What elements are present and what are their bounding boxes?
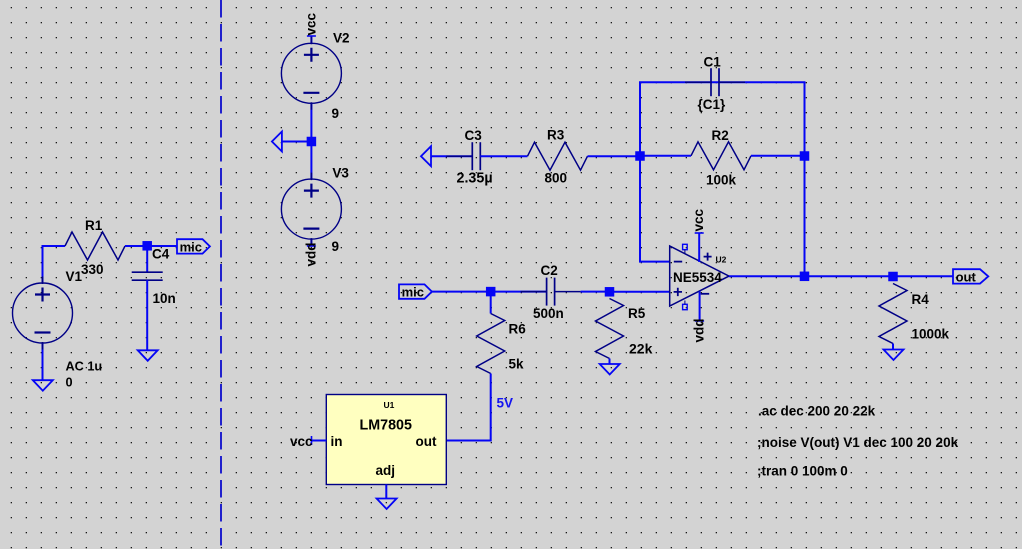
node mic junction <box>142 241 152 251</box>
wire inverting input <box>640 156 670 262</box>
svg-text:330: 330 <box>81 262 104 277</box>
op-amp balance pin top <box>683 244 688 253</box>
svg-text:9: 9 <box>332 239 340 254</box>
flag mic left <box>177 239 210 253</box>
svg-text:R1: R1 <box>85 218 103 233</box>
svg-text:mic: mic <box>180 239 202 254</box>
wire U1 adj to ground <box>385 485 387 499</box>
wire V2 to V3 <box>310 103 312 179</box>
svg-text:0: 0 <box>66 376 73 390</box>
svg-text:R6: R6 <box>509 322 527 337</box>
svg-text:NE5534: NE5534 <box>673 270 722 285</box>
node output feedback <box>800 272 810 282</box>
wire V2 top stub <box>310 36 312 43</box>
svg-text:vcc: vcc <box>290 434 313 449</box>
wire junction to C2 <box>491 291 547 293</box>
svg-text:{C1}: {C1} <box>698 97 727 112</box>
wire vcc stub to U1 in <box>312 440 327 442</box>
svg-text:C4: C4 <box>152 247 170 262</box>
flag out <box>953 269 988 283</box>
svg-text:V2: V2 <box>333 31 350 46</box>
node mic2 <box>486 287 496 297</box>
wire R5 to ground <box>609 359 611 365</box>
wire C2 to R5 node <box>581 291 610 293</box>
wire R6 top lead <box>490 292 492 314</box>
wire R2 right lead <box>751 155 805 157</box>
wire op-amp output <box>729 275 953 277</box>
wire R6 bottom to LM7805 out <box>446 374 490 441</box>
ground arrow left of C3 <box>421 146 431 166</box>
svg-text:;tran 0 100m 0: ;tran 0 100m 0 <box>757 464 848 479</box>
wire V1 bottom to ground <box>42 343 44 380</box>
svg-text:5k: 5k <box>509 357 525 372</box>
capacitor C2 <box>521 278 581 306</box>
svg-text:9: 9 <box>332 106 340 121</box>
svg-text:U1: U1 <box>384 400 395 410</box>
svg-text:800: 800 <box>545 171 568 186</box>
wire feedback loop with C1 <box>640 82 805 156</box>
ground arrow left of V2V3 <box>272 132 282 152</box>
voltage source V1 <box>13 277 73 350</box>
wire R1 to mic flag <box>125 245 177 247</box>
tick vcc op-amp <box>695 232 704 234</box>
svg-text:R4: R4 <box>912 292 930 307</box>
node vcc junction <box>307 137 317 147</box>
svg-text:vcc: vcc <box>303 12 318 35</box>
wire R2 left lead <box>640 155 691 157</box>
capacitor C3 <box>446 142 506 170</box>
svg-text:C2: C2 <box>541 263 558 278</box>
svg-text:C1: C1 <box>704 54 722 69</box>
ground C4 <box>138 350 158 361</box>
ground R4 <box>884 350 904 361</box>
svg-text:500n: 500n <box>533 306 564 321</box>
svg-text:out: out <box>416 434 437 449</box>
tick vdd op-amp <box>695 320 704 322</box>
svg-text:adj: adj <box>376 463 396 478</box>
op-amp V+ mark <box>704 253 712 261</box>
svg-text:vcc: vcc <box>691 208 706 231</box>
svg-text:;noise V(out) V1 dec 100 20 20: ;noise V(out) V1 dec 100 20 20k <box>757 435 959 450</box>
dashed divider line <box>220 0 222 549</box>
wire R4 to ground <box>892 344 894 350</box>
svg-text:in: in <box>331 434 343 449</box>
node feedback left <box>635 151 645 161</box>
regulator U1 LM7805 block <box>326 395 446 485</box>
flag mic right section <box>399 284 432 298</box>
svg-text:100k: 100k <box>706 173 737 188</box>
tick vcc V2 <box>307 35 316 37</box>
svg-text:U2: U2 <box>716 255 727 265</box>
svg-text:22k: 22k <box>629 341 653 357</box>
svg-text:vdd: vdd <box>692 318 707 342</box>
node feedback right <box>800 151 810 161</box>
resistor R1 <box>65 232 125 260</box>
wire C3 to R3 <box>480 155 527 157</box>
op-amp balance pin bottom <box>683 301 688 310</box>
op-amp noninverting mark <box>674 288 682 296</box>
ground V1 <box>33 380 53 391</box>
capacitor C4 <box>132 272 163 280</box>
wire op-amp to vdd <box>699 291 701 321</box>
wire junction to left arrow <box>282 141 312 143</box>
ground U1 adj <box>377 499 397 510</box>
wire arrow to C3 <box>431 155 472 157</box>
svg-text:vdd: vdd <box>303 242 318 266</box>
svg-text:V3: V3 <box>332 166 349 181</box>
svg-text:R5: R5 <box>628 306 646 321</box>
wire C4 to ground <box>146 280 148 350</box>
voltage source V2 <box>281 37 341 110</box>
svg-text:5V: 5V <box>497 396 514 411</box>
svg-text:out: out <box>956 269 977 284</box>
wire mic flag to junction <box>432 291 491 293</box>
svg-text:mic: mic <box>402 285 424 300</box>
resistor R6 <box>477 314 505 374</box>
wire V1 top to R1 <box>43 246 66 283</box>
wire feedback right down <box>804 156 806 276</box>
svg-text:1000k: 1000k <box>912 327 950 342</box>
wire C4 top lead <box>146 246 148 272</box>
resistor R2 <box>691 142 751 170</box>
svg-text:LM7805: LM7805 <box>360 418 412 434</box>
wire R3 to node <box>588 155 641 157</box>
svg-text:.ac dec 200 20 22k: .ac dec 200 20 22k <box>758 404 876 419</box>
node R5 top <box>605 287 615 297</box>
wire vcc to op-amp <box>698 233 700 262</box>
wire V3 bottom stub <box>310 239 312 246</box>
op-amp inverting mark <box>674 261 682 263</box>
svg-text:2.35µ: 2.35µ <box>457 171 493 187</box>
tick vcc U1 <box>311 436 313 445</box>
op-amp V- mark <box>701 293 710 295</box>
resistor R4 <box>879 284 907 344</box>
resistor R5 <box>596 299 624 359</box>
wire noninverting input <box>610 291 670 293</box>
capacitor C1 <box>685 68 745 96</box>
tick vdd V3 <box>307 245 316 247</box>
op-amp U2 triangle <box>670 246 729 306</box>
svg-text:C3: C3 <box>465 128 483 143</box>
svg-text:V1: V1 <box>66 269 83 284</box>
svg-text:10n: 10n <box>153 291 176 306</box>
svg-text:R2: R2 <box>712 128 729 143</box>
svg-text:AC 1u: AC 1u <box>66 360 103 374</box>
voltage source V3 <box>281 173 341 246</box>
svg-text:R3: R3 <box>547 127 565 142</box>
node R4 top <box>888 272 898 282</box>
resistor R3 <box>528 142 588 170</box>
ground R5 <box>600 364 620 375</box>
